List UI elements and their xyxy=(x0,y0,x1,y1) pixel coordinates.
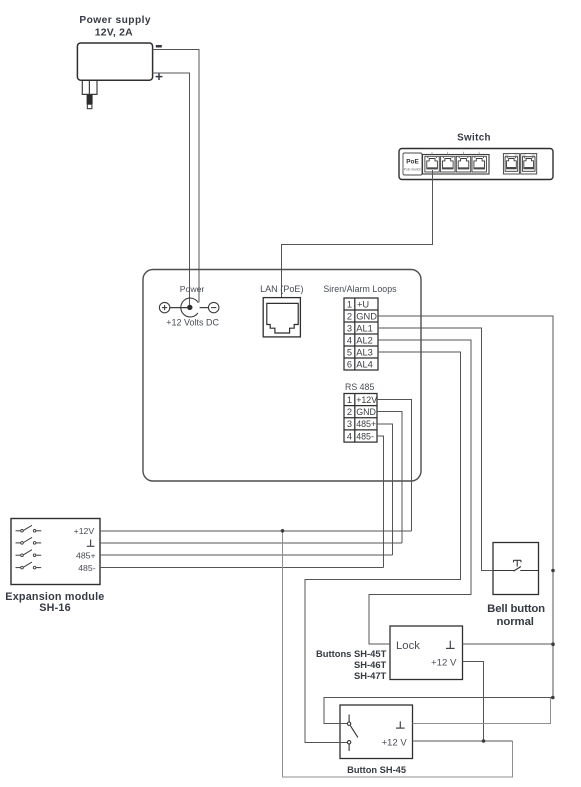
DC jack plus contact xyxy=(159,302,169,312)
expansion module switch contact 4 xyxy=(16,562,42,569)
wire: AL2 (siren pin 4) to lock input xyxy=(369,340,471,644)
button SH-45 switch symbol xyxy=(347,715,358,752)
svg-text:PoE: PoE xyxy=(406,159,419,166)
svg-text:GND: GND xyxy=(356,311,377,321)
label: minus terminal xyxy=(156,45,162,48)
power supply plug prongs xyxy=(82,81,97,95)
svg-text:Buttons SH-45T: Buttons SH-45T xyxy=(316,648,387,659)
svg-text:GND: GND xyxy=(356,407,376,417)
switch RJ45 port 1 xyxy=(425,156,439,172)
DC jack barrel arc xyxy=(181,298,198,317)
siren table pin names xyxy=(356,299,377,369)
svg-text:Siren/Alarm Loops: Siren/Alarm Loops xyxy=(323,284,397,294)
svg-text:+12V: +12V xyxy=(74,526,95,536)
svg-text:LAN (PoE): LAN (PoE) xyxy=(260,284,303,294)
switch 4-port group frame xyxy=(423,155,490,175)
svg-text:12V, 2A: 12V, 2A xyxy=(95,27,133,38)
svg-text:AL1: AL1 xyxy=(356,323,373,333)
expansion module SH-16 body xyxy=(11,519,100,585)
power supply plug tip xyxy=(87,94,93,104)
expansion module switch contact 2 xyxy=(16,537,42,544)
wire: expansion module 485- xyxy=(100,567,384,569)
svg-text:AL4: AL4 xyxy=(356,359,373,369)
switch port tick marks xyxy=(432,152,479,155)
svg-text:485+: 485+ xyxy=(76,551,96,561)
svg-text:2: 2 xyxy=(347,407,352,417)
wire: RS485 +12V pin to expansion module xyxy=(377,400,412,531)
svg-text:3: 3 xyxy=(347,323,352,333)
svg-text:Lock: Lock xyxy=(396,640,420,652)
switch PoE label box xyxy=(403,153,422,175)
wire: RS485 GND pin to expansion module xyxy=(377,412,402,543)
svg-text:Power: Power xyxy=(180,284,205,294)
wire: +12V bottom rail to button SH-45 xyxy=(283,531,513,777)
svg-text:4: 4 xyxy=(347,431,352,441)
svg-text:485+: 485+ xyxy=(356,419,376,429)
terminal block: RS 485 xyxy=(344,394,377,443)
svg-text:SH-16: SH-16 xyxy=(39,602,71,614)
wire: AL3 (siren pin 5) to button SH-45 bottom contact xyxy=(305,352,461,742)
wire: expansion module 485+ xyxy=(100,554,393,556)
svg-text:+12V: +12V xyxy=(356,395,377,405)
wire: plus contact to center pin xyxy=(170,307,187,309)
svg-text:RS 485: RS 485 xyxy=(345,382,374,392)
switch uplink RJ45 port 6 xyxy=(521,154,537,174)
lock driver box xyxy=(390,626,463,680)
svg-text:2: 2 xyxy=(347,311,352,321)
button SH-45 box xyxy=(340,705,413,759)
wire: RS485 485- pin to expansion module xyxy=(377,436,384,568)
svg-text:5: 5 xyxy=(347,347,352,357)
junction: button ground on GND rail xyxy=(551,696,555,700)
svg-text:6: 6 xyxy=(347,359,352,369)
svg-text:SH-47T: SH-47T xyxy=(354,670,387,681)
junction: lock +12V on button +12V wire xyxy=(482,739,486,743)
LAN RJ45 jack outer frame xyxy=(263,298,300,337)
wire: expansion module +12V xyxy=(100,530,412,532)
terminal block: Siren/Alarm Loops xyxy=(344,298,378,370)
DC jack minus contact xyxy=(209,302,219,312)
svg-text:Power supply: Power supply xyxy=(79,15,151,26)
label: Buttons SH-45T SH-46T SH-47T xyxy=(316,648,387,681)
svg-text:Switch: Switch xyxy=(457,132,491,143)
svg-text:SH-46T: SH-46T xyxy=(354,659,387,670)
wire: expansion module ground xyxy=(100,542,402,544)
wire: PSU minus output to DC jack barrel xyxy=(153,50,200,303)
DC jack center pin xyxy=(187,305,192,310)
LAN RJ45 jack inner outline xyxy=(267,303,298,333)
expansion module switch contact 1 xyxy=(16,525,42,532)
power supply adapter body xyxy=(77,43,152,80)
wire: barrel to minus contact xyxy=(200,307,209,309)
svg-text:AL2: AL2 xyxy=(356,335,373,345)
svg-text:+12 V: +12 V xyxy=(381,738,407,749)
wire: button SH-45 ground to GND rail xyxy=(413,698,551,724)
svg-text:4: 4 xyxy=(347,335,352,345)
svg-text:485-: 485- xyxy=(356,431,374,441)
svg-text:3: 3 xyxy=(347,419,352,429)
switch RJ45 port 3 xyxy=(456,156,470,172)
wire: RS485 485+ pin to expansion module xyxy=(377,424,393,555)
button SH-45 ground pin symbol xyxy=(396,721,405,728)
wire: button SH-45 +12 V feed xyxy=(413,740,513,742)
junction: bell button to GND rail xyxy=(551,569,555,573)
bell button box xyxy=(493,543,539,595)
svg-text:normal: normal xyxy=(497,616,534,628)
switch body xyxy=(399,149,553,180)
switch uplink RJ45 port 5 xyxy=(503,154,519,174)
switch RJ45 port 4 xyxy=(472,156,486,172)
svg-text:1: 1 xyxy=(347,395,352,405)
RS485 table pin names xyxy=(356,395,377,441)
wire: switch port 1 to LAN (PoE) jack xyxy=(281,170,432,303)
wire: GND (siren pin 2) to right rail and button SH-45 top contact xyxy=(324,316,553,724)
junction: lock ground on GND rail xyxy=(551,642,555,646)
svg-text:+12 V: +12 V xyxy=(431,658,457,669)
expansion module switch contact 3 xyxy=(16,550,42,557)
label: Expansion module SH-16 xyxy=(5,591,104,614)
svg-text:PoE-Switch: PoE-Switch xyxy=(404,168,422,172)
junction: +12V rail on expansion +12V wire xyxy=(281,529,285,533)
label: Bell button normal xyxy=(487,603,545,628)
svg-text:+U: +U xyxy=(357,299,369,309)
main device unit body xyxy=(143,270,421,482)
svg-text:485-: 485- xyxy=(78,563,95,573)
svg-text:Bell button: Bell button xyxy=(487,603,545,615)
lock box ground pin symbol xyxy=(446,641,455,649)
svg-text:AL3: AL3 xyxy=(356,347,373,357)
bell push-button symbol xyxy=(493,560,539,571)
siren table pin numbers 1-6 xyxy=(347,299,352,369)
wire: lock +12 V to bottom rail xyxy=(463,661,484,741)
wire: lock ground to GND rail xyxy=(463,643,554,645)
wire: PSU plus output to DC jack center pin xyxy=(153,73,190,305)
RS485 table pin numbers 1-4 xyxy=(347,395,352,441)
label: Power supply 12V, 2A xyxy=(79,15,151,38)
switch RJ45 port 2 xyxy=(441,156,455,172)
svg-text:Button SH-45: Button SH-45 xyxy=(347,765,406,775)
svg-text:1: 1 xyxy=(347,299,352,309)
wire: AL1 (siren pin 3) to bell button xyxy=(378,328,493,571)
label: plus terminal xyxy=(156,73,163,80)
svg-text:+12 Volts DC: +12 Volts DC xyxy=(166,317,219,327)
expansion module pin label ground xyxy=(87,540,95,547)
